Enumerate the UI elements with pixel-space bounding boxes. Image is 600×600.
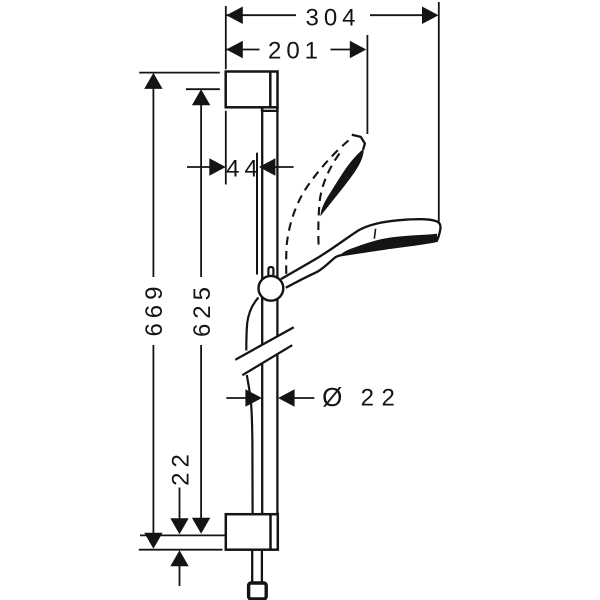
extension line bottom bracket mid [140, 534, 225, 536]
extension line top bracket top [139, 72, 220, 74]
dimension 625 bottom arrow [192, 518, 210, 534]
svg-text:201: 201 [268, 37, 323, 64]
dimension 669 line [152, 88, 154, 533]
slider knob [259, 276, 284, 301]
dimension 201 left arrow [226, 41, 243, 59]
dimension 201 line [226, 49, 350, 51]
upright head tip chevron [352, 135, 365, 150]
dimension 44 right arrow [259, 158, 276, 176]
dimension 22 up arrow [170, 550, 188, 566]
svg-text:304: 304 [305, 4, 360, 31]
extension line top bracket mid [186, 88, 220, 90]
dimension diameter 22 right arrow [278, 389, 295, 407]
dashed outline arc A (upright position) [286, 141, 348, 276]
extension line for 201 [366, 35, 368, 134]
dimension diameter 22 left arrow [245, 389, 262, 407]
dimension 304 left arrow [226, 6, 243, 24]
wall extension line upper [225, 6, 227, 69]
dimension 669 top arrow [144, 73, 162, 89]
dashed outline arc B (upright position) [318, 154, 339, 248]
dimension 44 left arrow [209, 158, 226, 176]
svg-text:625: 625 [189, 282, 216, 337]
extension line bottom bracket bottom [139, 549, 223, 551]
dimension 625 line [200, 105, 202, 519]
svg-text:669: 669 [141, 281, 168, 336]
pipe break slash upper [235, 327, 293, 360]
dimension 22 upper stem [179, 488, 181, 519]
bottom wall bracket [226, 514, 278, 550]
dimension 22 down arrow [170, 518, 188, 534]
top bracket collar [262, 107, 278, 111]
select button tick on head [374, 229, 375, 239]
dimension diameter 22 right tail [294, 397, 315, 399]
handshower outline (handle + head) [281, 219, 440, 288]
dimension 44 left tail [187, 166, 210, 168]
extension line for 44 (also upright handle edge) [256, 153, 258, 275]
dimension 625 top arrow [192, 89, 210, 105]
upright spray face (black crescent) [322, 150, 363, 213]
svg-text:22: 22 [168, 449, 195, 486]
top wall bracket [226, 72, 278, 108]
rail right edge [276, 109, 278, 515]
dimension 669 bottom arrow [144, 533, 162, 549]
rail left edge [261, 109, 263, 515]
svg-text:Ø: Ø [322, 382, 347, 412]
hose lower segment [247, 375, 253, 515]
hose end cap nut [249, 583, 267, 599]
pipe break slash lower [242, 345, 292, 375]
handshower spray face (black crescent) [342, 234, 437, 254]
dimension 22 lower stem [179, 566, 181, 586]
wall extension line lower [225, 111, 227, 185]
dimension 304 right arrow [422, 6, 439, 24]
dimension 44 right tail [274, 166, 293, 168]
svg-text:22: 22 [361, 384, 403, 411]
dimension 201 right arrow [350, 41, 367, 59]
hose tube below bracket [252, 550, 262, 584]
dimension diameter 22 left tail [226, 397, 247, 399]
slider knob nub [268, 267, 273, 278]
hose upper segment [246, 298, 258, 351]
dimension 304 line [226, 14, 423, 16]
extension line for 304 [438, 2, 440, 224]
